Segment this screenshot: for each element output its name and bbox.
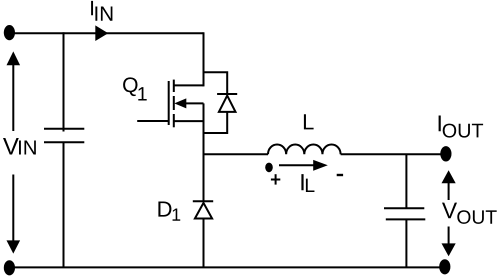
VIN reference arrow (lower shaft) bbox=[12, 175, 14, 242]
transistor Q1 gate lead wire bbox=[137, 120, 169, 122]
output capacitor bottom plate bbox=[386, 218, 426, 220]
transistor Q1 source tap wire bbox=[174, 120, 204, 122]
current arrow IL shaft bbox=[279, 164, 315, 166]
label L bbox=[304, 114, 314, 129]
wire: input capacitor branch (top) bbox=[63, 32, 65, 131]
diode D1 cathode bar bbox=[193, 200, 213, 202]
wire: switch node to inductor bbox=[204, 153, 269, 155]
label + (polarity) horizontal stroke bbox=[271, 179, 280, 181]
wire: body diode upper branch bbox=[204, 72, 228, 94]
label V_IN bbox=[3, 138, 36, 155]
VOUT reference arrow (down head) bbox=[442, 243, 456, 256]
input capacitor bottom plate bbox=[44, 141, 84, 143]
current arrow IL head bbox=[313, 160, 328, 171]
wire: output capacitor branch (bottom) bbox=[405, 219, 407, 268]
body diode triangle bbox=[219, 96, 236, 112]
diode D1 triangle bbox=[195, 203, 212, 219]
wire: inductor to output terminal bbox=[341, 153, 446, 155]
wire: input capacitor branch (bottom) bbox=[63, 142, 65, 268]
label + (polarity) vertical stroke bbox=[275, 174, 277, 184]
label I_IN bbox=[91, 1, 112, 21]
VOUT reference arrow (lower shaft) bbox=[448, 227, 450, 245]
transistor Q1 gate bar bbox=[168, 81, 170, 125]
transistor Q1 channel segment (drain) bbox=[173, 80, 175, 92]
label - (polarity) bbox=[337, 174, 343, 176]
label Q1 bbox=[123, 77, 147, 100]
label V_OUT bbox=[442, 203, 497, 224]
body diode cathode bar bbox=[217, 93, 237, 95]
VIN reference arrow (upper shaft) bbox=[12, 64, 14, 131]
current arrow I_IN bbox=[95, 25, 108, 41]
wire: D1 anode to bottom rail bbox=[203, 219, 205, 269]
wire: top rail from input terminal to drain column bbox=[9, 32, 204, 34]
transistor Q1 body arrow bbox=[174, 98, 186, 108]
wire: bottom rail bbox=[9, 266, 445, 268]
label D1 bbox=[158, 201, 180, 220]
node: input - terminal (bottom-left) bbox=[4, 260, 15, 275]
VIN reference arrow (up head) bbox=[7, 51, 21, 65]
VIN reference arrow (down head) bbox=[7, 240, 21, 253]
VOUT reference arrow (upper shaft) bbox=[448, 183, 450, 201]
label IL bbox=[301, 174, 314, 192]
label I_OUT bbox=[439, 115, 484, 137]
transistor Q1 drain tap wire bbox=[174, 84, 204, 86]
VOUT reference arrow (up head) bbox=[442, 170, 456, 183]
transistor Q1 body tap wire bbox=[184, 102, 204, 104]
node: input + terminal (top-left) bbox=[4, 25, 15, 40]
wire: source column down to D1 cathode bbox=[203, 103, 205, 201]
transistor Q1 channel segment (body) bbox=[173, 96, 175, 110]
node: output - terminal (bottom-right) bbox=[439, 259, 450, 274]
input capacitor top plate bbox=[44, 128, 84, 130]
wire: output capacitor branch (top) bbox=[405, 154, 407, 208]
transistor Q1 channel segment (source) bbox=[173, 114, 175, 127]
output capacitor top plate bbox=[384, 207, 424, 209]
inductor L winding bbox=[268, 144, 341, 154]
node: output + terminal (top-right) bbox=[440, 146, 451, 161]
wire: drain column from top rail bbox=[203, 32, 205, 86]
node: inductor input sense dot bbox=[265, 163, 273, 173]
wire: body diode lower branch bbox=[204, 112, 228, 133]
